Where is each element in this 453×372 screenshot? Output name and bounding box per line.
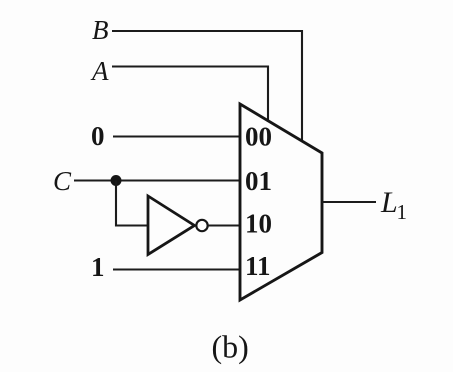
wire C to pin 01: [74, 179, 240, 181]
svg-text:00: 00: [245, 122, 272, 152]
inverter U1 triangle: [148, 196, 195, 255]
wire B (horizontal then down to mux top edge): [112, 31, 302, 142]
svg-text:1: 1: [91, 252, 105, 282]
svg-text:C: C: [53, 166, 72, 196]
svg-text:L: L: [380, 186, 398, 219]
node C junction dot: [111, 175, 122, 186]
svg-text:1: 1: [397, 200, 408, 224]
svg-text:10: 10: [245, 209, 272, 239]
svg-text:0: 0: [91, 121, 105, 151]
wire C branch down and to inverter input: [116, 181, 148, 226]
wire inverter output to pin 10: [208, 224, 240, 226]
wire output L1: [322, 201, 376, 203]
multiplexer U2 body (trapezoid): [240, 104, 322, 300]
label L1: [380, 186, 407, 224]
svg-text:11: 11: [245, 251, 271, 281]
inverter U1 bubble: [196, 220, 207, 231]
wire A (horizontal then down to mux top edge): [112, 67, 268, 123]
svg-text:01: 01: [245, 166, 272, 196]
wire 1 input to pin 11: [113, 268, 240, 270]
svg-text:A: A: [90, 56, 109, 86]
svg-text:(b): (b): [212, 329, 249, 365]
wire 0 input to pin 00: [113, 135, 240, 137]
svg-text:B: B: [92, 15, 109, 45]
